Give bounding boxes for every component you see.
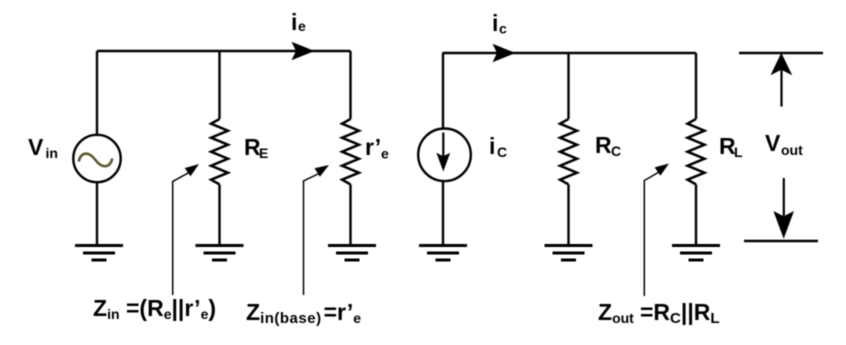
leader arrow to RE (Zin) [173,172,190,295]
wire: left top rail [97,50,351,52]
svg-text:r’: r’ [365,134,381,160]
leader arrow to RL (Zout) [644,172,660,297]
wire: current source bottom [442,181,444,246]
ground under Vin [75,246,123,261]
wire: right top rail [443,52,697,54]
svg-text:i: i [489,133,495,159]
current arrow ie on left rail [292,42,315,60]
svg-text:E: E [259,145,268,161]
svg-text:e: e [298,18,306,34]
arrow inside current source [442,133,444,158]
svg-text:e: e [381,146,389,162]
svg-text:V: V [28,134,44,160]
wire: RE branch bottom [218,184,220,245]
resistor r'e [342,119,359,184]
resistor RC [560,119,577,184]
ground under RL [672,246,720,261]
wire: Vin branch bottom [96,183,98,245]
svg-text:i: i [492,10,498,36]
Vout top bar [739,52,823,55]
svg-text:out: out [781,142,803,158]
ground under RC [545,246,593,261]
wire: RC branch bottom [567,184,569,245]
ground under r'e [328,246,376,261]
svg-text:V: V [765,130,781,156]
resistor RL [688,119,705,184]
svg-text:C: C [611,143,621,159]
wire: RL branch bottom [695,184,697,245]
wire: Vin branch top [96,51,98,134]
wire: r'e branch bottom [349,184,351,245]
current arrow ic on right rail [493,44,516,62]
wire: RL branch top [695,53,697,119]
svg-text:i: i [291,9,297,35]
current source iC circle [418,129,471,182]
source V1 circle [73,135,120,182]
sine wave inside source [79,154,112,167]
Vout bottom bar [744,240,818,243]
svg-text:c: c [499,21,507,37]
Vout down arrow [783,178,785,216]
leader arrow to r'e (Zin(base)) [304,173,321,295]
svg-text:C: C [497,144,507,160]
svg-text:in: in [46,145,58,161]
svg-text:L: L [734,144,743,160]
wire: current source top [442,53,444,130]
Vout up arrow [780,70,782,107]
ground under current source [419,246,467,261]
svg-text:R: R [595,132,612,158]
wire: RC branch top [567,53,569,119]
wire: r'e branch top [349,51,351,119]
resistor RE [211,119,228,184]
ground under RE [196,246,244,261]
wire: RE branch top [218,51,220,119]
